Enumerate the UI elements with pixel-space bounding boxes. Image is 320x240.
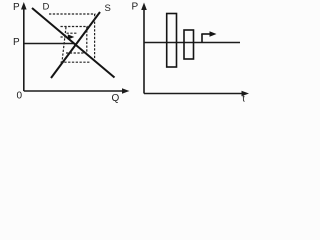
right horizontal axis (time axis) with right arrow — [144, 91, 249, 97]
oscillation rectangle 1 (largest swing) — [167, 14, 177, 68]
cobweb dashed segment H3 (bottom horizontal) — [61, 61, 91, 63]
cobweb convergence arrow (dashed tail + solid head toward equilibrium) — [61, 34, 75, 39]
demand curve D (downward sloping) — [32, 8, 115, 78]
cobweb dashed segment H2 (inner top horizontal) — [61, 26, 88, 28]
svg-text:Q: Q — [112, 93, 120, 104]
equilibrium price level line — [144, 42, 240, 44]
svg-text:0: 0 — [17, 91, 23, 102]
cobweb dashed segment H5 (innermost horizontal) — [67, 32, 77, 34]
damped step with arrow (converging price path) — [201, 31, 216, 42]
svg-text:t: t — [242, 94, 245, 105]
equilibrium price line (horizontal solid) — [24, 43, 74, 45]
cobweb dashed segment V1 (right vertical) — [94, 14, 96, 59]
svg-text:D: D — [43, 2, 50, 13]
svg-text:P: P — [13, 2, 20, 13]
svg-text:P: P — [132, 2, 139, 13]
left horizontal axis (quantity axis) with right arrow — [24, 88, 130, 94]
left vertical axis (price axis) with up arrow — [21, 2, 27, 91]
svg-text:P: P — [13, 37, 20, 48]
cobweb dashed segment H4 (inner bottom horizontal) — [66, 52, 87, 54]
oscillation rectangle 2 (smaller swing) — [184, 30, 194, 59]
cobweb dashed segment V3 (inner right vertical) — [86, 27, 88, 54]
right vertical axis with up arrow — [141, 3, 147, 94]
supply curve S (upward sloping) — [51, 12, 100, 78]
cobweb dashed segment V2 (left vertical, slight scan slant) — [62, 27, 66, 62]
svg-text:S: S — [105, 3, 111, 14]
cobweb dashed segment H1 (top horizontal) — [49, 13, 96, 15]
